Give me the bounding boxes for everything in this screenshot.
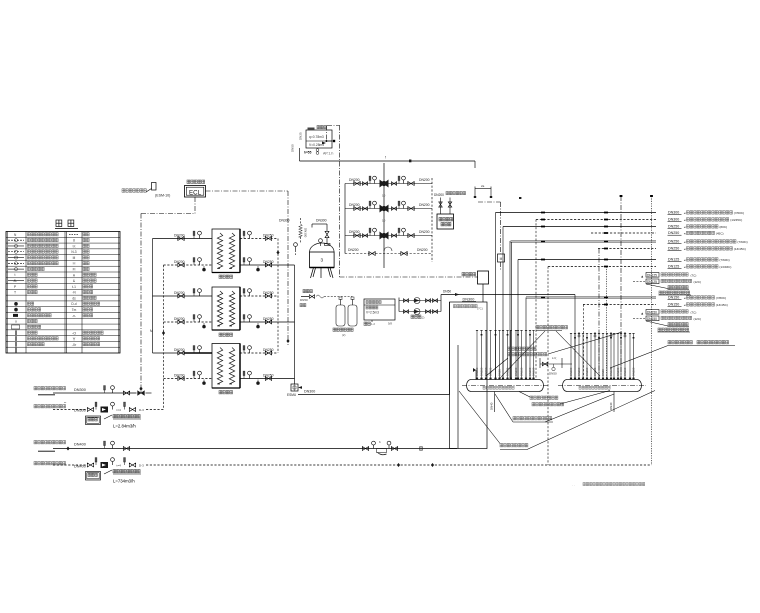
HX row right 3 DN250: [240, 289, 278, 298]
pipe from makeup tank to system: [299, 148, 301, 161]
svg-text:M: M: [150, 329, 153, 333]
svg-text:DN150: DN150: [668, 303, 679, 307]
annotation: supply/return to users (above): [486, 332, 622, 376]
manifold1 drain vent left: [475, 370, 477, 380]
svg-text:DN125: DN125: [668, 265, 679, 269]
bus riser x518: [517, 260, 519, 381]
svg-text:t=4: t=4: [117, 464, 122, 468]
svg-text:T: T: [14, 291, 16, 295]
water distributor manifold 1: [467, 380, 544, 392]
svg-text:DN125: DN125: [609, 367, 613, 376]
outdoor temperature sensor: [122, 183, 170, 198]
svg-text:V=2.5m3: V=2.5m3: [366, 311, 379, 315]
svg-text:DN250: DN250: [263, 260, 274, 264]
bus riser dashed x548 from line D: [547, 267, 549, 466]
bus riser dashed x536: [535, 220, 537, 381]
svg-text:DN250: DN250: [668, 225, 679, 229]
svg-text:DN250: DN250: [585, 367, 589, 376]
svg-text:DN300: DN300: [304, 228, 308, 238]
svg-text:◄: ◄: [683, 266, 686, 269]
softened water tank: [364, 299, 395, 326]
svg-text:DN200: DN200: [348, 248, 359, 252]
svg-text:◄: ◄: [683, 241, 686, 244]
distribution row 7 DN125 supply: [518, 259, 656, 261]
svg-text:◄: ◄: [683, 226, 686, 229]
distribution row 6 DN250 return: [598, 248, 656, 250]
svg-text:1.2: 1.2: [371, 322, 375, 326]
svg-text:(80C): (80C): [719, 225, 727, 229]
svg-text:DN50: DN50: [549, 372, 557, 376]
DN300 return line to pump suction: [298, 394, 450, 396]
svg-text:DN300: DN300: [463, 298, 475, 302]
svg-text:DN150: DN150: [532, 367, 536, 376]
svg-text:DN150: DN150: [647, 310, 657, 314]
HX row left 3 DN200: [153, 289, 213, 298]
note under rows 13/14: [646, 321, 690, 332]
HX row left 2 DN200: [164, 258, 213, 271]
HX primary side headers: [152, 239, 154, 354]
circulation pump row 2 DN200: [345, 201, 432, 222]
svg-text:10: 10: [382, 219, 386, 223]
HX row left 6 DN200: [164, 371, 213, 384]
svg-text:DN150: DN150: [520, 367, 524, 376]
svg-text:(7/60C): (7/60C): [737, 240, 747, 244]
HX row right 4 DN250: [240, 315, 295, 328]
svg-text:DN300: DN300: [316, 219, 327, 223]
svg-text:DN250: DN250: [263, 317, 274, 321]
HX row left 4 DN200: [164, 315, 213, 328]
svg-text:10: 10: [382, 194, 386, 198]
svg-text:(12C): (12C): [694, 317, 702, 321]
svg-text:(7/60C): (7/60C): [734, 211, 744, 215]
svg-text:DN200: DN200: [174, 260, 185, 264]
svg-text:ESMU: ESMU: [287, 393, 297, 397]
svg-text:◄: ◄: [683, 297, 686, 300]
svg-text:t-1: t-1: [72, 285, 76, 289]
svg-text:AP.1.h: AP.1.h: [323, 152, 333, 156]
svg-text:-O: -O: [72, 331, 76, 335]
svg-text:t: t: [15, 273, 16, 277]
svg-text:DN200: DN200: [419, 230, 430, 234]
distribution row 9 DN125 future: [641, 273, 697, 279]
svg-text:DN200: DN200: [174, 317, 185, 321]
expansion tank (3): [310, 219, 335, 279]
water softener tanks: [333, 297, 357, 338]
svg-text:ECL: ECL: [189, 190, 202, 197]
svg-text:▲: ▲: [641, 275, 644, 279]
line D: secondary return DN400: [34, 458, 652, 484]
circulation pump group headers: [344, 184, 346, 254]
line A: primary supply DN300: [34, 386, 152, 396]
svg-text:(7C): (7C): [477, 307, 483, 311]
city water inlet: [300, 290, 334, 307]
control line ECL to DN300 riser: [206, 190, 289, 192]
svg-text:D-3: D-3: [139, 408, 144, 412]
heat exchanger HX3 plate unit: [212, 344, 240, 394]
legend table 图例: [6, 220, 120, 353]
svg-text:DN200: DN200: [514, 367, 518, 376]
svg-text:I-I: I-I: [73, 262, 76, 266]
svg-text:DN300: DN300: [668, 218, 679, 222]
svg-text:DN50: DN50: [291, 144, 295, 152]
HX secondary side headers: [277, 239, 279, 354]
manifold2 bottom drain: [613, 392, 615, 413]
svg-text:5/8: 5/8: [388, 322, 392, 326]
svg-text:DN200: DN200: [434, 193, 444, 197]
svg-text:3: 3: [321, 258, 324, 263]
svg-text:(2): (2): [342, 333, 345, 337]
svg-text:DN250: DN250: [263, 291, 274, 295]
distribution row 12 DN150 return: [583, 304, 656, 306]
svg-text:DN250: DN250: [263, 233, 274, 237]
svg-text:DN50: DN50: [443, 290, 451, 294]
line D return riser dotted x651: [651, 196, 653, 465]
svg-text:DN125: DN125: [489, 367, 493, 376]
svg-text:◄: ◄: [683, 212, 686, 215]
svg-text:DN200: DN200: [419, 203, 430, 207]
line C: secondary supply DN400: [34, 440, 457, 455]
bus riser x510 double: [509, 241, 511, 380]
svg-text:M: M: [73, 256, 76, 260]
svg-text:q=0.78m3: q=0.78m3: [309, 135, 324, 139]
svg-text:D-3: D-3: [139, 464, 144, 468]
svg-text:DN200: DN200: [174, 348, 185, 352]
svg-text:DN300: DN300: [74, 409, 86, 413]
heat exchanger HX1 plate unit: [212, 229, 240, 278]
HX row right 6 DN250: [240, 371, 295, 384]
svg-text:DN250: DN250: [528, 367, 532, 376]
ECL climate compensator controller U-ECL: [185, 180, 206, 197]
line B: primary return DN300: [34, 401, 164, 429]
distribution row 5 DN250 supply: [511, 240, 657, 242]
svg-text:DN250: DN250: [577, 367, 581, 376]
svg-text:Fl: Fl: [73, 268, 76, 272]
svg-text:h=55: h=55: [304, 151, 312, 155]
svg-text:DN250: DN250: [263, 348, 274, 352]
svg-text:◄: ◄: [683, 304, 686, 307]
svg-text:(7C): (7C): [691, 311, 697, 315]
svg-text:(12C): (12C): [694, 280, 702, 284]
svg-text:(7C): (7C): [691, 274, 697, 278]
svg-text:DN40: DN40: [609, 402, 613, 410]
svg-text:o: o: [15, 320, 17, 324]
annotation: temperature sensors right: [610, 341, 735, 369]
distribution row 11 DN150 supply: [526, 296, 656, 298]
svg-text:Y: Y: [73, 336, 76, 341]
main DN300 supply header box: [450, 298, 488, 449]
svg-text:2a: 2a: [481, 184, 485, 188]
bus riser x495: [495, 213, 497, 381]
svg-text:DN250: DN250: [632, 367, 636, 376]
svg-text:DN300: DN300: [74, 388, 86, 392]
svg-text:◄: ◄: [683, 259, 686, 262]
dash-dot control main vertical: [327, 125, 340, 127]
svg-text:N-3: N-3: [71, 250, 76, 254]
HX row left 1 DN200: [153, 231, 213, 240]
HX row right 1 DN250: [240, 231, 278, 240]
svg-text:DN125: DN125: [647, 280, 657, 284]
svg-text:D-d: D-d: [71, 302, 76, 306]
distribution row 4 DN250 return: [591, 232, 656, 234]
svg-text:L=734m3/h: L=734m3/h: [113, 479, 135, 484]
svg-text:DN250: DN250: [263, 373, 274, 377]
svg-text:· ·: · ·: [572, 483, 575, 487]
distribution row 13 DN150 future: [641, 310, 697, 316]
manifold 2 branch pipes with DN labels: [569, 333, 636, 380]
air separator unit 明装散气罐: [434, 192, 466, 230]
makeup pumps: [399, 295, 441, 320]
HX row left 5 DN200: [153, 346, 213, 355]
svg-text:DN200: DN200: [419, 178, 430, 182]
svg-text:t=4: t=4: [117, 408, 122, 412]
svg-text:M: M: [500, 257, 503, 261]
svg-text:(2): (2): [421, 315, 424, 319]
circulation pump row 3 DN200: [345, 228, 432, 238]
control line ECL down to valve on line A: [194, 197, 196, 214]
annotation: safety drain pipe: [495, 394, 614, 422]
distribution row 1 DN300 supply: [496, 212, 657, 214]
manifold interconnect with valve DN50: [540, 356, 572, 376]
svg-text:DN150: DN150: [647, 317, 657, 321]
ESMU energy meter: [287, 384, 302, 397]
svg-text:(13/46C): (13/46C): [719, 265, 731, 269]
svg-text:Tm: Tm: [72, 308, 77, 312]
manifold 1 branch pipes with DN labels: [475, 331, 536, 380]
svg-text:DN200: DN200: [174, 291, 185, 295]
svg-text:DN125: DN125: [593, 367, 597, 376]
dimension mark 2a: [474, 184, 522, 199]
heat exchanger HX2 plate unit: [212, 287, 240, 336]
svg-text:-5-: -5-: [13, 279, 17, 283]
general note bottom: [572, 483, 645, 488]
makeup water line DN50 to manifold: [441, 294, 575, 296]
svg-text:DN125: DN125: [647, 273, 657, 277]
svg-text:▲: ▲: [641, 312, 644, 316]
HX row right 2 DN250: [240, 258, 295, 271]
electric regulating valve box: [462, 271, 489, 302]
bus riser dash-dot x621: [620, 196, 622, 380]
svg-text:◄: ◄: [683, 219, 686, 222]
svg-text:(7/60C): (7/60C): [719, 258, 729, 262]
svg-text:DN200: DN200: [417, 248, 428, 252]
svg-text:DN400: DN400: [74, 443, 86, 447]
svg-text:(45C): (45C): [716, 231, 724, 235]
svg-text:DN250: DN250: [668, 240, 679, 244]
svg-text:L=2.84m3/h: L=2.84m3/h: [113, 424, 136, 429]
svg-text:L=(: L=(: [552, 356, 556, 360]
note under rows 9/10: [646, 284, 691, 295]
water collector manifold 2: [563, 380, 642, 392]
bypass row DN200: [345, 247, 432, 256]
svg-text:DN50: DN50: [300, 298, 308, 302]
svg-text:DN150: DN150: [623, 367, 627, 376]
svg-text:DN250: DN250: [480, 367, 484, 376]
svg-text:(13/45C): (13/45C): [730, 218, 742, 222]
svg-text:V=0.28m3: V=0.28m3: [309, 143, 324, 147]
svg-text:f: f: [385, 156, 386, 160]
bus riser x503: [502, 227, 504, 381]
svg-text:DN150: DN150: [668, 296, 679, 300]
svg-text:DN25: DN25: [299, 132, 303, 140]
svg-text:DN300: DN300: [668, 211, 679, 215]
svg-text:DN80: DN80: [498, 369, 502, 376]
manifold1 bottom drain: [494, 392, 496, 413]
svg-text:DN200: DN200: [616, 367, 620, 376]
svg-text:(13/45C): (13/45C): [734, 247, 746, 251]
makeup water tank box: [291, 126, 334, 156]
svg-text:◄: ◄: [683, 248, 686, 251]
svg-text:DN40: DN40: [490, 402, 494, 410]
riser with flexible joint DN300: [279, 218, 308, 255]
distribution row 8 DN125 return: [548, 266, 656, 268]
annotation: drainage way: [459, 391, 655, 450]
svg-text:(7/80C): (7/80C): [716, 296, 726, 300]
svg-text:DN250: DN250: [668, 231, 679, 235]
HX row right 5 DN250: [240, 346, 278, 355]
svg-text:DN300: DN300: [279, 219, 290, 223]
svg-text:DN300: DN300: [569, 367, 573, 376]
svg-text:DN125: DN125: [668, 258, 679, 262]
svg-text:DN200: DN200: [174, 233, 185, 237]
annotation: vent valve group: [500, 326, 600, 379]
annotation: below manifolds supply/return: [519, 391, 610, 406]
svg-text:8: 8: [73, 239, 75, 243]
svg-text:◄: ◄: [683, 233, 686, 236]
distribution row 14 DN150 future return: [633, 316, 701, 321]
distribution row 3 DN250 supply: [503, 226, 656, 228]
manifold2 risers: [574, 295, 576, 381]
svg-text:t-t: t-t: [73, 244, 76, 248]
svg-text:ds: ds: [72, 296, 76, 300]
distribution row 2 DN300 return: [536, 219, 656, 221]
svg-text:(ESM-10): (ESM-10): [155, 194, 170, 198]
svg-text:DN200: DN200: [174, 373, 185, 377]
circulation pump row 1 DN200: [345, 176, 432, 197]
bus riser x526: [525, 298, 527, 381]
svg-text:(13/45C): (13/45C): [716, 303, 728, 307]
svg-text:DN250: DN250: [668, 247, 679, 251]
svg-text:DN80: DN80: [601, 369, 605, 376]
distribution row 10 DN125 future return: [633, 279, 701, 284]
svg-text:DN300: DN300: [304, 390, 315, 394]
electric control valve branch: [478, 202, 505, 271]
svg-text:-n-: -n-: [72, 314, 76, 318]
